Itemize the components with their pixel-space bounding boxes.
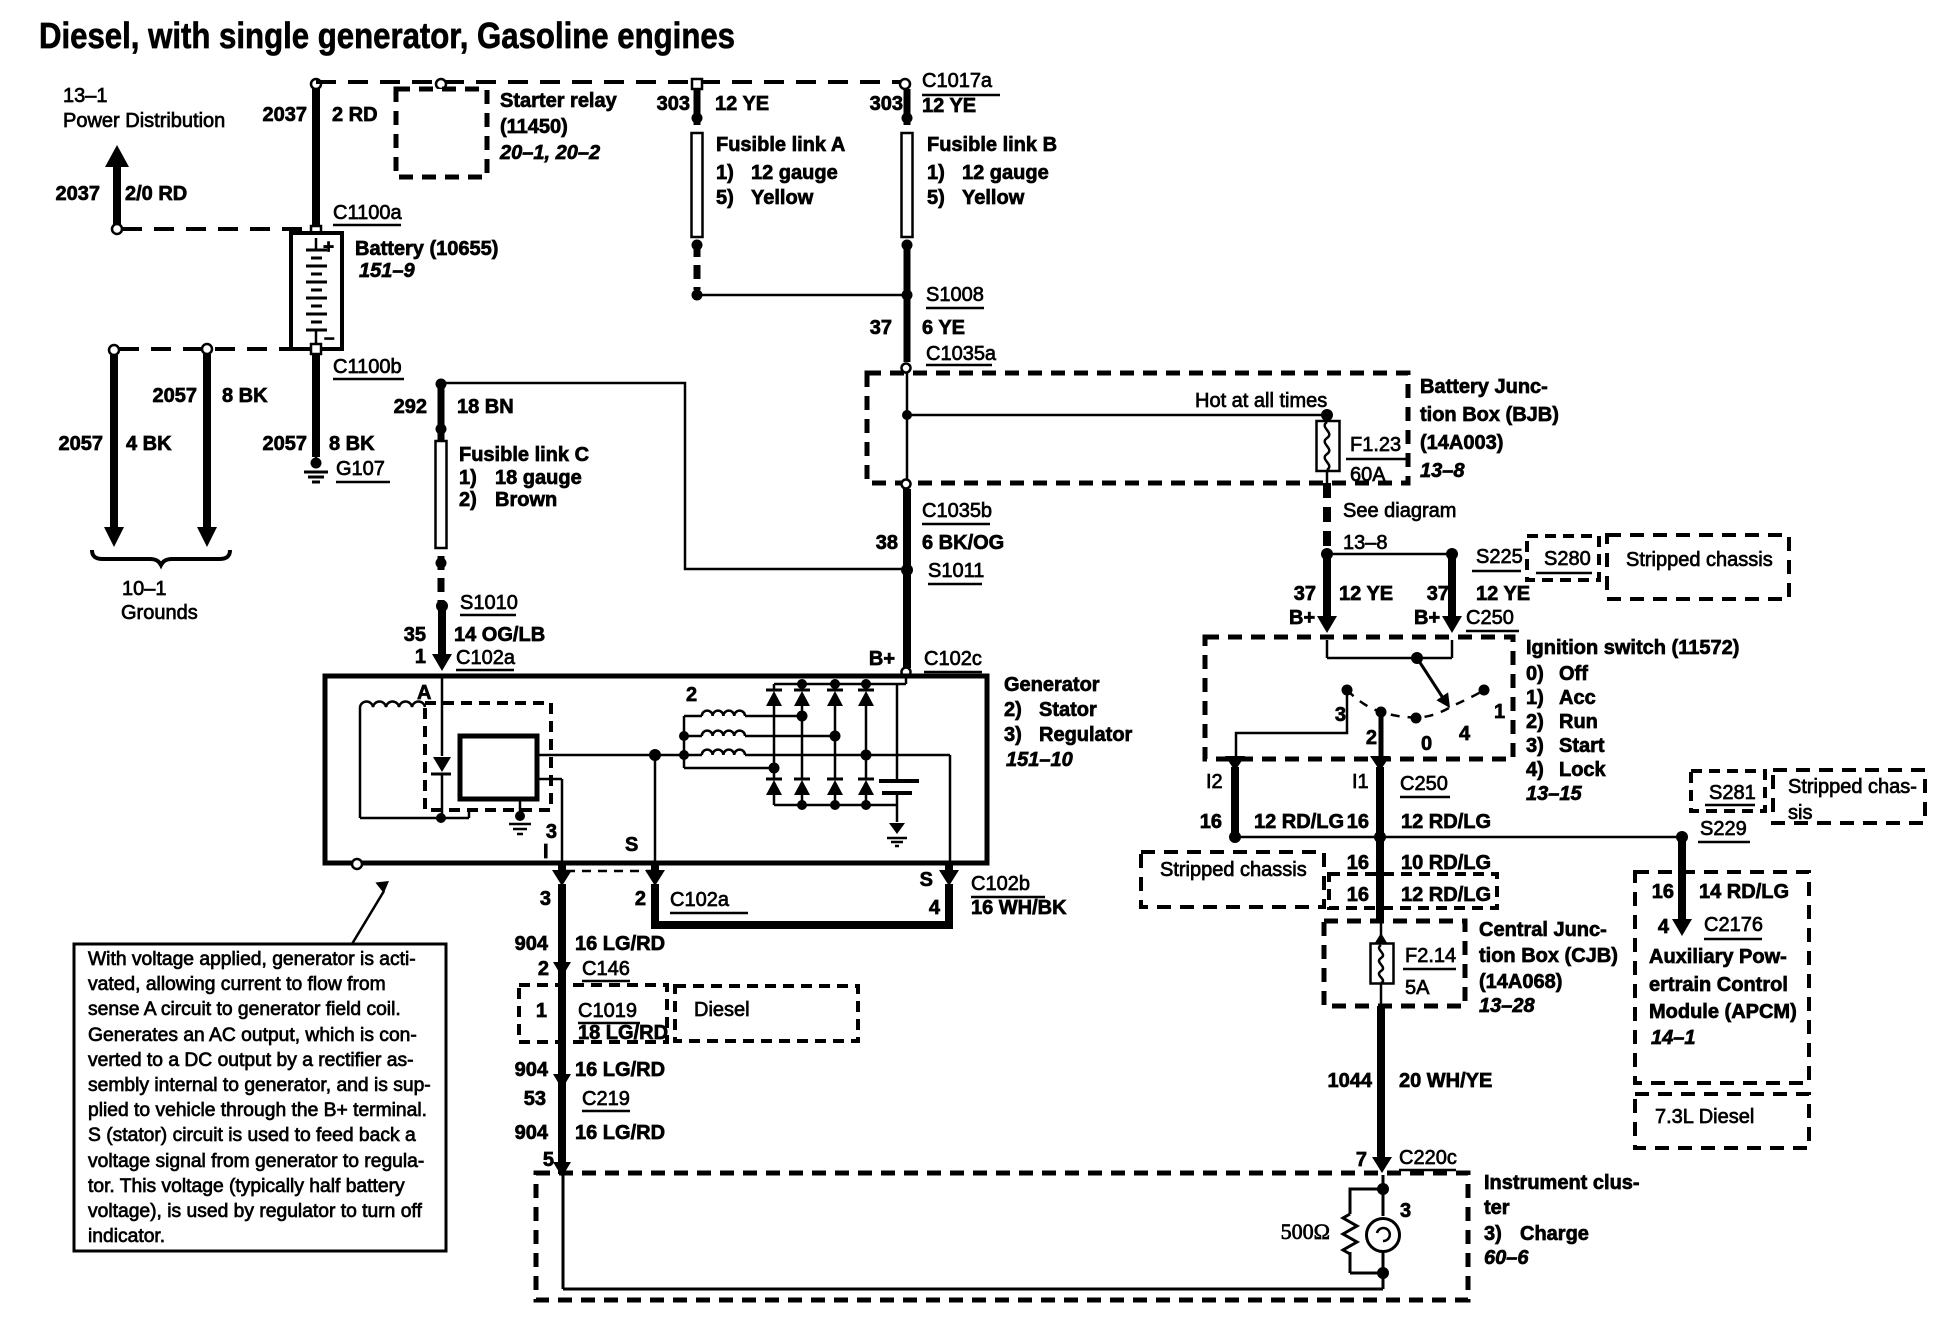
svg-text:16: 16 <box>1347 811 1369 833</box>
svg-text:C102a: C102a <box>670 889 730 911</box>
svg-text:Start: Start <box>1559 735 1605 757</box>
svg-text:16: 16 <box>1652 881 1674 903</box>
svg-text:Yellow: Yellow <box>962 187 1025 209</box>
svg-text:12 RD/LG: 12 RD/LG <box>1254 811 1344 833</box>
svg-text:Starter relay: Starter relay <box>500 90 618 112</box>
svg-text:C219: C219 <box>582 1088 630 1110</box>
svg-text:500Ω: 500Ω <box>1281 1219 1330 1244</box>
svg-text:12 YE: 12 YE <box>922 95 976 117</box>
svg-text:12 YE: 12 YE <box>715 93 769 115</box>
svg-text:2): 2) <box>1526 711 1544 733</box>
svg-text:With voltage applied, generato: With voltage applied, generator is acti- <box>88 949 416 970</box>
svg-text:I1: I1 <box>1352 771 1369 793</box>
svg-text:B+: B+ <box>1289 607 1315 629</box>
svg-text:ertrain Control: ertrain Control <box>1649 974 1788 996</box>
svg-text:C1019: C1019 <box>578 1000 637 1022</box>
svg-text:16 LG/RD: 16 LG/RD <box>575 933 665 955</box>
svg-text:Grounds: Grounds <box>121 602 198 624</box>
svg-text:(11450): (11450) <box>500 116 568 138</box>
svg-text:38: 38 <box>876 532 898 554</box>
svg-text:1: 1 <box>415 646 426 668</box>
svg-text:0: 0 <box>1421 733 1432 755</box>
svg-text:S1010: S1010 <box>460 592 518 614</box>
svg-text:1): 1) <box>1526 687 1544 709</box>
svg-text:S (stator) circuit is used to: S (stator) circuit is used to feed back … <box>88 1125 416 1146</box>
svg-text:Stripped chassis: Stripped chassis <box>1160 859 1307 881</box>
svg-text:16 LG/RD: 16 LG/RD <box>575 1122 665 1144</box>
svg-text:Diesel, with single generator,: Diesel, with single generator, Gasoline … <box>39 15 735 56</box>
svg-text:Module (APCM): Module (APCM) <box>1649 1001 1797 1023</box>
svg-text:6 BK/OG: 6 BK/OG <box>922 532 1004 554</box>
svg-text:Fusible link B: Fusible link B <box>927 134 1057 156</box>
svg-text:C1100a: C1100a <box>333 202 402 224</box>
svg-text:904: 904 <box>515 1059 549 1081</box>
svg-text:S280: S280 <box>1544 548 1591 570</box>
svg-text:5): 5) <box>716 187 734 209</box>
svg-text:Fusible link A: Fusible link A <box>716 134 845 156</box>
svg-text:B+: B+ <box>1414 607 1440 629</box>
svg-text:G107: G107 <box>336 458 385 480</box>
svg-text:14 OG/LB: 14 OG/LB <box>454 624 545 646</box>
svg-text:13–8: 13–8 <box>1343 532 1388 554</box>
svg-text:Generates an AC output, which: Generates an AC output, which is con- <box>88 1025 417 1046</box>
svg-text:12 gauge: 12 gauge <box>962 162 1049 184</box>
svg-text:plied to vehicle through the B: plied to vehicle through the B+ terminal… <box>88 1100 427 1121</box>
svg-text:7: 7 <box>1356 1149 1367 1171</box>
svg-text:35: 35 <box>404 624 426 646</box>
svg-text:tion Box (CJB): tion Box (CJB) <box>1479 945 1618 967</box>
svg-text:12 YE: 12 YE <box>1476 583 1530 605</box>
svg-text:Stator: Stator <box>1039 699 1097 721</box>
svg-text:S1008: S1008 <box>926 284 984 306</box>
svg-text:2: 2 <box>1366 727 1377 749</box>
svg-text:S229: S229 <box>1700 818 1747 840</box>
svg-text:Stripped chas-: Stripped chas- <box>1788 776 1917 798</box>
svg-text:See diagram: See diagram <box>1343 500 1456 522</box>
svg-text:60A: 60A <box>1350 464 1386 486</box>
svg-text:2037: 2037 <box>56 183 101 205</box>
svg-text:14 RD/LG: 14 RD/LG <box>1699 881 1789 903</box>
svg-text:2): 2) <box>459 489 477 511</box>
svg-text:Auxiliary Pow-: Auxiliary Pow- <box>1649 946 1787 968</box>
svg-text:Hot at all times: Hot at all times <box>1195 390 1327 412</box>
svg-text:60–6: 60–6 <box>1484 1247 1529 1269</box>
svg-text:16 LG/RD: 16 LG/RD <box>575 1059 665 1081</box>
svg-text:4: 4 <box>1658 916 1670 938</box>
svg-text:Power Distribution: Power Distribution <box>63 110 225 132</box>
svg-text:37: 37 <box>1294 583 1316 605</box>
svg-text:16: 16 <box>1347 852 1369 874</box>
svg-text:1044: 1044 <box>1328 1070 1373 1092</box>
svg-text:F2.14: F2.14 <box>1405 945 1456 967</box>
svg-text:3: 3 <box>546 821 557 843</box>
svg-text:C1035b: C1035b <box>922 500 992 522</box>
svg-text:151–9: 151–9 <box>359 260 415 282</box>
svg-text:voltage), is used by regulator: voltage), is used by regulator to turn o… <box>88 1201 422 1222</box>
svg-text:Brown: Brown <box>495 489 557 511</box>
svg-text:13–15: 13–15 <box>1526 783 1582 805</box>
svg-text:ter: ter <box>1484 1197 1510 1219</box>
svg-text:10 RD/LG: 10 RD/LG <box>1401 852 1491 874</box>
svg-text:Diesel: Diesel <box>694 999 750 1021</box>
svg-text:3: 3 <box>540 888 551 910</box>
svg-text:vated, allowing current to flo: vated, allowing current to flow from <box>88 974 386 995</box>
svg-text:4: 4 <box>929 897 941 919</box>
svg-text:indicator.: indicator. <box>88 1226 165 1247</box>
svg-text:303: 303 <box>870 93 903 115</box>
svg-text:S: S <box>625 834 638 856</box>
svg-text:13–8: 13–8 <box>1420 460 1465 482</box>
svg-text:C102c: C102c <box>924 648 982 670</box>
svg-text:20–1, 20–2: 20–1, 20–2 <box>499 142 600 164</box>
svg-text:Battery Junc-: Battery Junc- <box>1420 376 1548 398</box>
svg-text:Central Junc-: Central Junc- <box>1479 919 1607 941</box>
svg-text:voltage signal from generator: voltage signal from generator to regula- <box>88 1151 424 1172</box>
svg-text:5: 5 <box>543 1149 554 1171</box>
svg-text:S281: S281 <box>1709 782 1756 804</box>
svg-text:2057: 2057 <box>153 385 198 407</box>
svg-text:53: 53 <box>524 1088 546 1110</box>
svg-text:C146: C146 <box>582 958 630 980</box>
svg-text:S: S <box>920 869 933 891</box>
svg-text:3: 3 <box>1335 704 1346 726</box>
svg-text:S225: S225 <box>1476 546 1523 568</box>
svg-text:7.3L Diesel: 7.3L Diesel <box>1655 1106 1754 1128</box>
svg-text:904: 904 <box>515 933 549 955</box>
svg-text:Fusible link C: Fusible link C <box>459 444 589 466</box>
svg-text:+: + <box>323 237 334 258</box>
svg-text:16 WH/BK: 16 WH/BK <box>971 897 1067 919</box>
svg-text:F1.23: F1.23 <box>1350 434 1401 456</box>
svg-text:C1035a: C1035a <box>926 343 997 365</box>
svg-text:10–1: 10–1 <box>122 578 167 600</box>
svg-text:Generator: Generator <box>1004 674 1100 696</box>
svg-text:1: 1 <box>1494 701 1505 723</box>
svg-text:5A: 5A <box>1405 977 1430 999</box>
svg-text:C102b: C102b <box>971 873 1030 895</box>
svg-text:Lock: Lock <box>1559 759 1607 781</box>
svg-text:151–10: 151–10 <box>1006 749 1073 771</box>
svg-text:1): 1) <box>716 162 734 184</box>
svg-text:Run: Run <box>1559 711 1598 733</box>
svg-text:3): 3) <box>1526 735 1544 757</box>
svg-text:tion Box (BJB): tion Box (BJB) <box>1420 404 1559 426</box>
svg-text:37: 37 <box>1427 583 1449 605</box>
svg-text:C250: C250 <box>1466 607 1514 629</box>
svg-text:sense A circuit to generator f: sense A circuit to generator field coil. <box>88 999 401 1020</box>
svg-text:3): 3) <box>1484 1223 1502 1245</box>
svg-text:1): 1) <box>459 467 477 489</box>
svg-text:12 YE: 12 YE <box>1339 583 1393 605</box>
svg-text:14–1: 14–1 <box>1651 1027 1696 1049</box>
svg-text:12 RD/LG: 12 RD/LG <box>1401 811 1491 833</box>
svg-text:sembly internal to generator,: sembly internal to generator, and is sup… <box>88 1075 431 1096</box>
svg-text:4 BK: 4 BK <box>126 433 172 455</box>
svg-text:2 RD: 2 RD <box>332 104 378 126</box>
svg-text:13–1: 13–1 <box>63 85 108 107</box>
svg-text:37: 37 <box>870 317 892 339</box>
svg-text:1: 1 <box>536 1000 547 1022</box>
svg-text:16: 16 <box>1200 811 1222 833</box>
svg-text:3): 3) <box>1004 724 1022 746</box>
svg-text:6 YE: 6 YE <box>922 317 965 339</box>
svg-text:Regulator: Regulator <box>1039 724 1133 746</box>
svg-text:18 LG/RD: 18 LG/RD <box>578 1022 668 1044</box>
svg-text:904: 904 <box>515 1122 549 1144</box>
svg-text:Acc: Acc <box>1559 687 1596 709</box>
svg-text:Battery (10655): Battery (10655) <box>355 238 498 260</box>
svg-text:S1011: S1011 <box>928 560 984 582</box>
svg-text:C102a: C102a <box>456 647 516 669</box>
svg-text:2: 2 <box>635 888 646 910</box>
svg-text:C220c: C220c <box>1399 1147 1457 1169</box>
svg-text:3: 3 <box>1400 1200 1411 1222</box>
svg-text:2: 2 <box>686 684 697 706</box>
svg-text:12 RD/LG: 12 RD/LG <box>1401 884 1491 906</box>
svg-text:8 BK: 8 BK <box>222 385 268 407</box>
svg-text:Stripped chassis: Stripped chassis <box>1626 549 1773 571</box>
svg-text:Charge: Charge <box>1520 1223 1589 1245</box>
svg-text:4): 4) <box>1526 759 1544 781</box>
svg-text:0): 0) <box>1526 663 1544 685</box>
svg-text:2057: 2057 <box>59 433 104 455</box>
svg-text:18 gauge: 18 gauge <box>495 467 582 489</box>
svg-text:C250: C250 <box>1400 773 1448 795</box>
svg-text:4: 4 <box>1459 723 1471 745</box>
svg-text:Yellow: Yellow <box>751 187 814 209</box>
svg-text:tor. This voltage (typically h: tor. This voltage (typically half batter… <box>88 1176 405 1197</box>
svg-text:2037: 2037 <box>263 104 308 126</box>
svg-text:verted to a DC output by a rec: verted to a DC output by a rectifier as- <box>88 1050 414 1071</box>
svg-text:Off: Off <box>1559 663 1588 685</box>
svg-text:303: 303 <box>657 93 690 115</box>
svg-text:13–28: 13–28 <box>1479 995 1535 1017</box>
svg-text:Instrument clus-: Instrument clus- <box>1484 1172 1640 1194</box>
svg-text:20 WH/YE: 20 WH/YE <box>1399 1070 1492 1092</box>
svg-text:292: 292 <box>394 396 427 418</box>
svg-text:C1100b: C1100b <box>333 356 402 378</box>
svg-text:Ignition switch (11572): Ignition switch (11572) <box>1526 637 1739 659</box>
svg-text:8 BK: 8 BK <box>329 433 375 455</box>
svg-text:5): 5) <box>927 187 945 209</box>
svg-text:I2: I2 <box>1206 771 1223 793</box>
svg-text:12 gauge: 12 gauge <box>751 162 838 184</box>
svg-text:2): 2) <box>1004 699 1022 721</box>
svg-text:C2176: C2176 <box>1704 914 1763 936</box>
svg-text:2057: 2057 <box>263 433 308 455</box>
svg-text:1): 1) <box>927 162 945 184</box>
svg-text:(14A003): (14A003) <box>1420 432 1503 454</box>
svg-text:18 BN: 18 BN <box>457 396 514 418</box>
svg-text:I: I <box>543 841 549 863</box>
svg-text:16: 16 <box>1347 884 1369 906</box>
svg-text:sis: sis <box>1788 802 1812 824</box>
svg-text:(14A068): (14A068) <box>1479 971 1562 993</box>
svg-text:B+: B+ <box>869 648 895 670</box>
svg-text:2: 2 <box>538 958 549 980</box>
svg-text:C1017a: C1017a <box>922 70 993 92</box>
svg-text:2/0 RD: 2/0 RD <box>125 183 187 205</box>
